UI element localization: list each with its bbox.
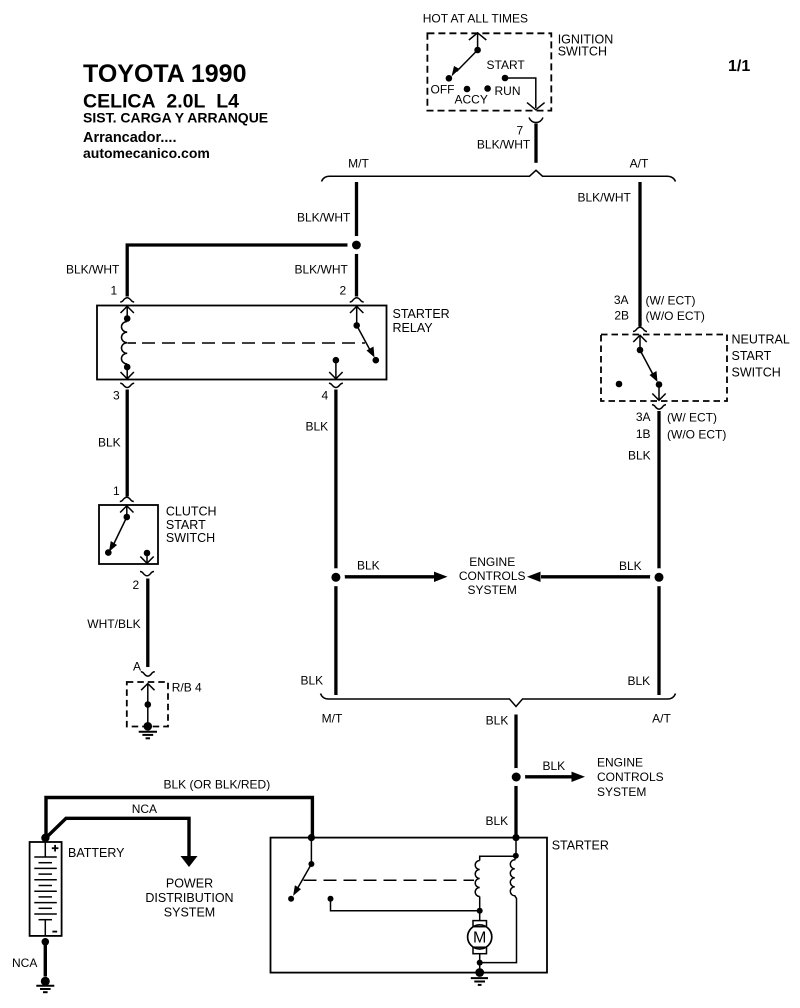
svg-text:NCA: NCA (132, 802, 157, 816)
ignition switch arrow to HOT feed (469, 33, 486, 50)
svg-text:7: 7 (517, 124, 524, 138)
svg-text:BLK: BLK (543, 759, 566, 773)
relay pin 2 arrow (350, 306, 363, 325)
svg-text:OFF: OFF (431, 83, 455, 97)
neutral switch common (637, 347, 644, 354)
R/B4 arrow (141, 684, 154, 705)
svg-text:BLK/WHT: BLK/WHT (297, 211, 351, 225)
wire START output inside switch (505, 78, 545, 110)
ground battery (41, 977, 50, 986)
relay dashed link (128, 342, 137, 344)
svg-text:R/B 4: R/B 4 (172, 681, 202, 695)
wire to pull-in coil (480, 856, 516, 860)
svg-text:SYSTEM: SYSTEM (468, 583, 517, 597)
motor M1 (479, 911, 481, 921)
wire clutch to R/B4 (146, 579, 149, 668)
svg-text:BLK/WHT: BLK/WHT (66, 263, 120, 277)
svg-text:NEUTRAL: NEUTRAL (732, 333, 790, 347)
relay contact NO (373, 357, 380, 364)
svg-text:CLUTCH: CLUTCH (166, 505, 217, 519)
wire bottom bracket to starter (514, 715, 517, 837)
svg-text:BLK (OR BLK/RED): BLK (OR BLK/RED) (164, 778, 271, 792)
junction coil / motor (477, 908, 483, 914)
contact OFF (446, 75, 453, 82)
clutch contact left (105, 549, 112, 556)
starter contact right (328, 896, 334, 902)
svg-text:1: 1 (111, 284, 118, 298)
relay pin 1 arrow (121, 306, 134, 318)
svg-text:ACCY: ACCY (455, 93, 488, 107)
svg-text:A: A (133, 660, 141, 674)
svg-text:ENGINE: ENGINE (469, 555, 515, 569)
svg-text:M: M (473, 930, 486, 947)
starter dashed link (304, 879, 475, 881)
connector clutch pin 1 (120, 497, 134, 501)
svg-text:RUN: RUN (495, 84, 521, 98)
svg-text:STARTER: STARTER (393, 307, 450, 321)
svg-text:A/T: A/T (630, 157, 649, 171)
svg-text:CONTROLS: CONTROLS (597, 770, 664, 784)
wire relay pin4 down (334, 390, 337, 696)
svg-text:SIST. CARGA Y ARRANQUE: SIST. CARGA Y ARRANQUE (83, 110, 268, 126)
junction BLK wire / starter (512, 834, 519, 841)
ignition switch box (427, 33, 551, 110)
ground starter (475, 968, 484, 977)
svg-text:BLK: BLK (357, 559, 380, 573)
relay pin 3 arrow (121, 367, 134, 379)
starter switch lead (310, 838, 312, 864)
svg-text:TOYOTA 1990: TOYOTA 1990 (83, 60, 247, 88)
neutral top arrow (633, 335, 646, 350)
relay pin 4 arrow (329, 360, 342, 379)
starter solenoid feed (515, 838, 517, 854)
junction neutral wire / engine controls (650, 568, 668, 586)
connector neutral top (633, 327, 647, 331)
starter switch blade (298, 864, 311, 888)
svg-text:HOT AT ALL TIMES: HOT AT ALL TIMES (423, 12, 528, 26)
svg-text:SWITCH: SWITCH (166, 531, 215, 545)
relay switch blade (357, 325, 370, 350)
connector relay pin 2 (350, 298, 364, 302)
wire ignition to bracket (534, 124, 537, 163)
battery plus/minus marks (52, 845, 59, 932)
clutch switch common (124, 514, 131, 521)
svg-text:CONTROLS: CONTROLS (459, 569, 526, 583)
svg-text:2: 2 (340, 284, 347, 298)
svg-text:SYSTEM: SYSTEM (164, 906, 215, 920)
engine controls system text lower (597, 756, 664, 799)
svg-text:Arrancador....: Arrancador.... (83, 130, 176, 146)
connector relay pin 3 (120, 383, 134, 387)
wire NCA to power distribution (46, 818, 189, 856)
starter box (271, 838, 548, 973)
clutch switch blade (114, 517, 127, 544)
ground R/B4 (144, 722, 153, 731)
svg-text:BLK: BLK (619, 559, 642, 573)
svg-text:START: START (487, 58, 526, 72)
svg-text:(W/O ECT): (W/O ECT) (646, 309, 705, 323)
wire A/T branch (638, 182, 641, 327)
svg-text:automecanico.com: automecanico.com (83, 145, 210, 161)
wire contact to motor (331, 899, 479, 911)
svg-text:START: START (732, 349, 772, 363)
svg-text:BLK: BLK (486, 714, 509, 728)
arrow engine controls left (336, 575, 436, 578)
relay contact pin4 (333, 357, 340, 364)
relay switch common (353, 322, 360, 329)
battery (41, 834, 49, 842)
wire neutral switch down (657, 411, 660, 695)
connector neutral bottom (652, 405, 666, 409)
R/B4 node (145, 701, 152, 708)
starter relay box (97, 306, 387, 380)
battery top wire BLK (OR BLK/RED) (46, 798, 312, 839)
arrow engine controls right (541, 575, 659, 578)
connector relay pin 1 (120, 298, 134, 302)
contact RUN (484, 85, 491, 92)
power distribution system text (145, 877, 233, 920)
title block (83, 60, 268, 161)
engine controls system text (459, 555, 526, 597)
svg-text:NCA: NCA (12, 956, 37, 970)
neutral start switch box (601, 335, 727, 402)
contact START (502, 75, 509, 82)
relay coil (121, 322, 127, 364)
hold-in coil (481, 856, 517, 962)
svg-text:BLK: BLK (486, 814, 509, 828)
connector clutch pin 2 (140, 572, 154, 576)
connector relay pin 4 (329, 383, 343, 387)
svg-text:SWITCH: SWITCH (558, 45, 607, 59)
battery negative lead (42, 938, 50, 946)
svg-text:1: 1 (113, 484, 120, 498)
svg-text:BLK: BLK (98, 436, 121, 450)
svg-text:3A: 3A (614, 293, 629, 307)
neutral bottom arrow (652, 385, 665, 401)
contact ACCY (464, 86, 471, 93)
svg-text:2: 2 (133, 578, 140, 592)
svg-text:BATTERY: BATTERY (68, 846, 125, 860)
battery plates (34, 842, 57, 936)
R/B4 ground lead (147, 705, 149, 724)
pull-in coil (475, 861, 480, 897)
svg-text:(W/O ECT): (W/O ECT) (667, 428, 726, 442)
arrow engine controls lower (516, 775, 573, 778)
svg-text:POWER: POWER (166, 877, 213, 891)
svg-text:3A: 3A (636, 410, 651, 424)
svg-text:SWITCH: SWITCH (732, 366, 781, 380)
svg-text:A/T: A/T (652, 712, 671, 726)
svg-text:3: 3 (113, 389, 120, 403)
wire branch to relay pin 1 (127, 245, 358, 297)
wire relay pin3 to clutch (126, 390, 129, 497)
svg-text:1/1: 1/1 (728, 58, 750, 75)
svg-text:BLK: BLK (301, 674, 324, 688)
bracket M/T A/T join (bottom) (321, 694, 676, 707)
junction engine controls lower (507, 768, 525, 786)
starter switch common (308, 861, 314, 867)
starter contact left (288, 896, 294, 902)
svg-text:4: 4 (322, 389, 329, 403)
clutch pin1 arrow (120, 506, 133, 517)
svg-text:STARTER: STARTER (552, 839, 609, 853)
svg-text:SYSTEM: SYSTEM (597, 785, 646, 799)
svg-text:2B: 2B (614, 309, 629, 323)
junction M/T (347, 236, 365, 254)
svg-text:(W/ ECT): (W/ ECT) (646, 294, 696, 308)
ignition switch common contact (474, 47, 481, 54)
connector 7 (529, 118, 543, 123)
junction relay pin4 wire / engine controls (327, 568, 345, 586)
neutral switch blade (640, 350, 653, 375)
junction battery wire / starter (308, 834, 315, 841)
clutch pin2 arrow (140, 553, 153, 563)
clutch contact pin 2 (144, 550, 151, 557)
relay coil node bottom (124, 364, 131, 371)
ignition switch blade to OFF (457, 50, 478, 72)
svg-text:BLK/WHT: BLK/WHT (295, 263, 349, 277)
svg-text:RELAY: RELAY (393, 321, 434, 335)
svg-text:M/T: M/T (348, 157, 369, 171)
neutral contact right (656, 381, 663, 388)
neutral contact left (616, 381, 623, 388)
svg-text:(W/ ECT): (W/ ECT) (667, 411, 717, 425)
svg-text:BLK/WHT: BLK/WHT (477, 138, 531, 152)
wire M/T branch (355, 182, 358, 297)
junction motor / hold coil (477, 960, 483, 966)
relay coil node top (124, 315, 131, 322)
svg-text:ENGINE: ENGINE (597, 756, 643, 770)
svg-text:BLK: BLK (628, 449, 651, 463)
svg-text:START: START (166, 518, 206, 532)
svg-text:BLK: BLK (628, 674, 651, 688)
clutch start switch box (99, 505, 158, 564)
svg-text:DISTRIBUTION: DISTRIBUTION (145, 891, 233, 905)
svg-text:M/T: M/T (322, 712, 343, 726)
svg-text:WHT/BLK: WHT/BLK (87, 617, 140, 631)
bracket M/T A/T split (top) (322, 170, 676, 181)
svg-text:1B: 1B (636, 427, 651, 441)
R/B 4 box (127, 682, 168, 727)
svg-text:BLK: BLK (306, 420, 329, 434)
svg-text:BLK/WHT: BLK/WHT (578, 191, 632, 205)
